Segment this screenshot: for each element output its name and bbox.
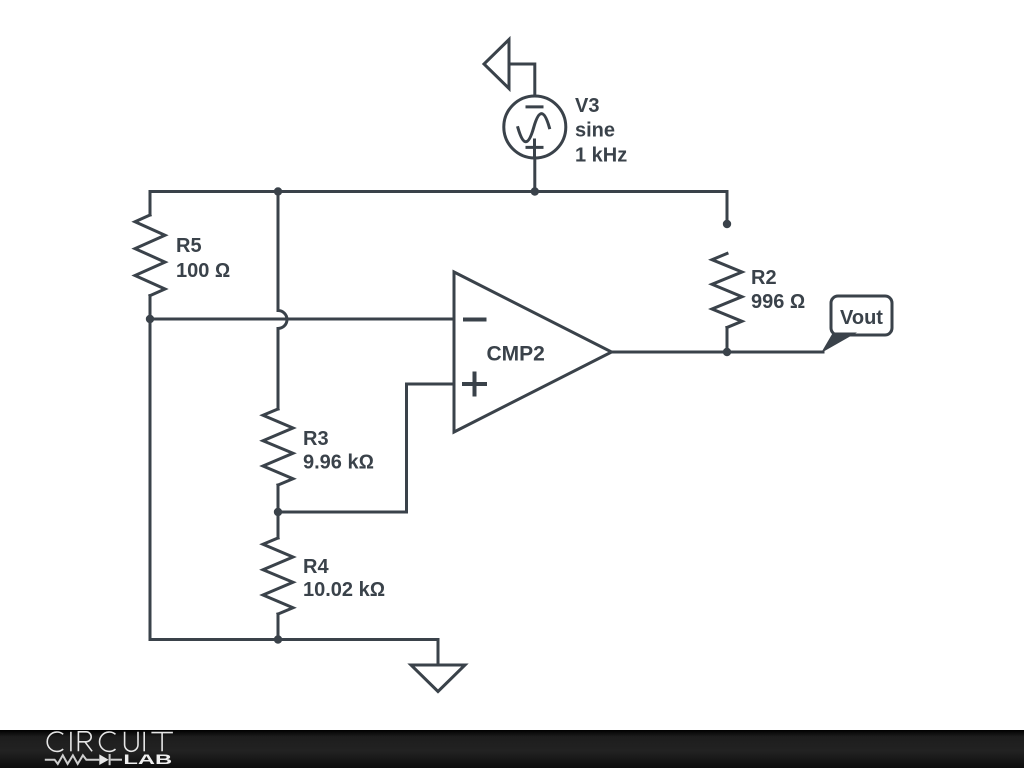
svg-text:R2: R2 (751, 267, 777, 289)
wire R4 bottom lead (277, 614, 280, 640)
wire bottom rail (150, 640, 438, 666)
junction node R2 top (723, 220, 731, 228)
logo diode triangle (99, 754, 108, 765)
logo resistor-diode squiggle (45, 754, 122, 765)
wire top rail (150, 192, 727, 225)
wire R2 bottom lead (726, 328, 729, 353)
junction node top-left (274, 187, 282, 195)
footer bar (0, 730, 1024, 768)
net label Vout tail (821, 333, 857, 354)
logo CIRCUIT (47, 732, 173, 752)
net label Vout box (831, 296, 892, 335)
wire V3 top lead to flag (509, 64, 535, 95)
op-amp CMP2 (454, 272, 612, 432)
svg-text:10.02 kΩ: 10.02 kΩ (303, 579, 385, 601)
resistor R4 (263, 538, 293, 614)
op-amp plus symbol (464, 374, 485, 395)
svg-text:R5: R5 (176, 235, 202, 257)
junction node minus (146, 315, 154, 323)
wire output (612, 351, 823, 354)
wire minus input (150, 318, 454, 321)
wire middle vertical with hop (278, 192, 287, 410)
svg-text:V3: V3 (575, 95, 599, 117)
svg-text:R3: R3 (303, 428, 329, 450)
voltage source V3 (504, 96, 566, 158)
svg-text:R4: R4 (303, 556, 329, 578)
svg-text:1 kHz: 1 kHz (575, 145, 627, 167)
svg-text:sine: sine (575, 120, 615, 142)
junction node V3 (531, 187, 539, 195)
wire left vertical (149, 296, 152, 640)
resistor R3 (263, 409, 293, 485)
wire V3 bottom lead (533, 159, 536, 192)
svg-text:LAB: LAB (123, 751, 172, 767)
svg-text:9.96 kΩ: 9.96 kΩ (303, 452, 374, 474)
svg-text:CMP2: CMP2 (487, 343, 545, 366)
wire plus input (278, 384, 454, 512)
junction node output (723, 348, 731, 356)
svg-text:100 Ω: 100 Ω (176, 260, 230, 282)
svg-text:996 Ω: 996 Ω (751, 291, 805, 313)
svg-text:Vout: Vout (840, 307, 883, 329)
resistor R2 (712, 254, 742, 328)
ground (411, 665, 465, 692)
junction node bottom (274, 635, 282, 643)
wire R3 to R4 (277, 485, 280, 538)
resistor R5 (135, 215, 165, 296)
op-amp minus symbol (465, 318, 485, 322)
net flag V3 (484, 40, 509, 89)
junction node R3-R4 (274, 508, 282, 516)
